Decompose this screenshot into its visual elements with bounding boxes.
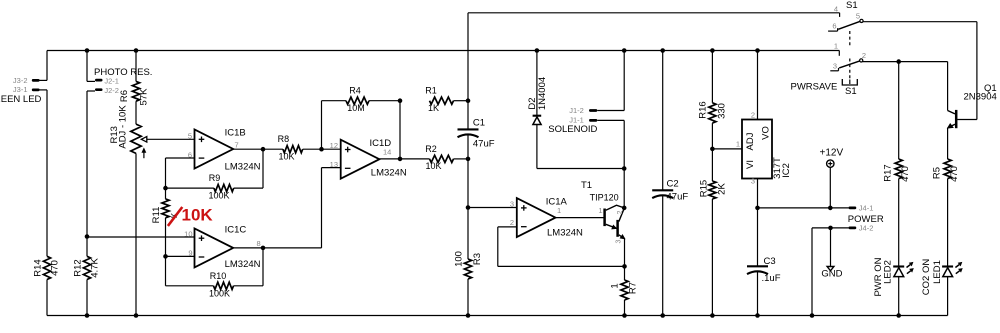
- switch S1 lower blade: [839, 61, 860, 68]
- node IC1C output junction: [261, 246, 266, 251]
- node LED2 bottom rail junction: [896, 313, 901, 318]
- wire Q1 emitter down to R5: [947, 128, 949, 159]
- wire solenoid loop bottom: [537, 168, 624, 170]
- svg-text:8: 8: [257, 239, 261, 248]
- svg-text:1: 1: [557, 206, 561, 215]
- svg-text:57K: 57K: [138, 88, 149, 106]
- svg-text:J3-1: J3-1: [13, 85, 28, 94]
- resistor R4: [346, 97, 369, 104]
- resistor R7: [621, 280, 628, 300]
- node GND stem junction: [828, 226, 833, 231]
- resistor R15: [709, 181, 716, 199]
- svg-text:S1: S1: [845, 86, 857, 97]
- wire R10 left run: [166, 285, 214, 287]
- svg-text:LM324N: LM324N: [371, 167, 407, 178]
- R13 adjust arrow: [142, 148, 146, 158]
- svg-text:10K: 10K: [182, 206, 214, 225]
- wire +12V stem: [829, 167, 831, 208]
- wire J3-1 down to R14: [46, 90, 48, 256]
- node R15 bottom rail junction: [710, 313, 715, 318]
- diode D2: [533, 116, 542, 125]
- node C3 bottom rail junction: [755, 313, 760, 318]
- red strikethrough slash: [168, 207, 182, 226]
- resistor R10: [214, 282, 234, 289]
- wire R17 riser: [898, 62, 900, 159]
- wire C3 to bottom rail: [757, 272, 759, 316]
- wire switch S1 pin1 terminal tick: [838, 51, 840, 56]
- wire J2-2 down to R12/IC1C node: [86, 91, 88, 237]
- wire D2 to bottom of solenoid loop: [536, 125, 538, 169]
- node T1 collector junction: [622, 206, 627, 211]
- svg-text:VO: VO: [760, 126, 771, 140]
- wire R12 top stub: [86, 237, 88, 257]
- +12V supply symbol: [827, 160, 834, 167]
- wire R11 to pin9 node: [165, 218, 167, 257]
- wire rail to R6: [135, 51, 137, 82]
- svg-text:7: 7: [235, 140, 239, 149]
- node R3 bottom rail junction: [466, 313, 471, 318]
- node R13 bottom rail junction: [134, 313, 139, 318]
- svg-text:100K: 100K: [208, 191, 229, 201]
- svg-text:10M: 10M: [347, 103, 365, 113]
- svg-text:2K: 2K: [716, 183, 727, 195]
- connector J4-2: [849, 227, 857, 230]
- svg-text:13: 13: [330, 160, 338, 169]
- wire C1 down through nodes to R3: [467, 135, 469, 259]
- node J4-2 bottom rail junction: [810, 313, 815, 318]
- wire IC1C output run: [233, 247, 321, 249]
- node IC1B output junction: [261, 147, 266, 152]
- svg-text:TIP120: TIP120: [590, 193, 619, 203]
- svg-text:R10: R10: [210, 271, 227, 281]
- wire J4-2 to bottom rail: [811, 228, 813, 316]
- wire Q1 collector riser: [947, 62, 949, 111]
- svg-text:5: 5: [856, 11, 860, 20]
- node IC1D output junction: [398, 157, 403, 162]
- wire J1-1 down to T1 collector: [623, 120, 625, 207]
- switch mechanical link dashed lower: [849, 59, 851, 79]
- connector J1-1: [589, 119, 624, 122]
- wire R12 to bottom rail: [86, 280, 88, 316]
- node IC1A pin3 junction: [466, 205, 471, 210]
- resistor R17: [895, 159, 902, 179]
- wire R8 to IC1D pin 12: [303, 148, 341, 150]
- node IC2 rail junction: [755, 48, 760, 53]
- svg-text:R4: R4: [349, 86, 361, 96]
- LED LED2: [893, 262, 913, 276]
- wire T1 emitter down: [624, 239, 626, 267]
- svg-text:+12V: +12V: [820, 148, 844, 159]
- wire IC1D output run: [379, 158, 429, 160]
- svg-text:5: 5: [188, 131, 192, 140]
- svg-text:C2: C2: [667, 179, 679, 190]
- wire IC1A output to T1 base: [556, 217, 604, 219]
- svg-text:J2-2: J2-2: [104, 86, 119, 95]
- wire R9 right riser: [262, 149, 264, 188]
- resistor R12: [83, 256, 90, 279]
- svg-text:IC1B: IC1B: [225, 128, 246, 139]
- switch S1 upper blade: [838, 21, 860, 29]
- ground symbol: [827, 267, 834, 271]
- wire switch S1 pin4 terminal tick: [839, 13, 841, 17]
- svg-text:1: 1: [609, 283, 620, 288]
- svg-text:10K: 10K: [425, 161, 441, 171]
- wire S1 pin2 to Q1 collector run: [863, 61, 948, 63]
- node R7 bottom rail junction: [622, 313, 627, 318]
- svg-text:R14: R14: [32, 259, 43, 276]
- node R2/C1 junction: [466, 157, 471, 162]
- svg-text:R6: R6: [119, 90, 130, 102]
- momentary bracket: [842, 79, 857, 85]
- wire node to IC1C pin 10: [87, 236, 195, 238]
- node R1/C1 junction: [466, 98, 471, 103]
- wire C2 to bottom rail: [662, 196, 664, 316]
- svg-text:3: 3: [615, 239, 622, 243]
- resistor R11: [162, 199, 169, 218]
- wire R10 right riser: [262, 248, 264, 286]
- svg-text:1: 1: [598, 206, 602, 215]
- switch mechanical link dashed upper: [849, 31, 851, 46]
- svg-text:R17: R17: [882, 164, 893, 181]
- wire GND stem: [830, 228, 832, 267]
- node solenoid loop junction: [622, 166, 627, 171]
- wire R15 to bottom rail: [711, 199, 713, 316]
- wire main +12V top rail: [47, 50, 839, 52]
- svg-text:470: 470: [50, 260, 61, 276]
- wire power run to J4-1: [758, 207, 849, 209]
- node power node junction: [755, 206, 760, 211]
- svg-text:IC2: IC2: [781, 163, 792, 178]
- wire IC2 pin 1: [712, 148, 742, 150]
- potentiometer R13: [131, 124, 141, 153]
- svg-text:R9: R9: [209, 173, 221, 183]
- wire R13 to bottom rail: [135, 153, 137, 315]
- svg-text:2N3904: 2N3904: [964, 92, 997, 103]
- switch S1 lower pin 3 stub: [830, 68, 838, 71]
- connector J1-2: [589, 109, 624, 112]
- wire R9 left run: [166, 187, 214, 189]
- svg-text:12: 12: [330, 141, 338, 150]
- svg-text:GND: GND: [821, 269, 842, 280]
- R13 wiper arrow: [141, 137, 147, 143]
- svg-text:R8: R8: [278, 134, 290, 144]
- node R4 branch junction: [319, 147, 324, 152]
- wire R5 to LED1: [947, 179, 949, 267]
- transistor Q1 2N3904: [948, 110, 977, 128]
- svg-text:T1: T1: [581, 180, 592, 191]
- wire LED2 to bottom rail: [898, 277, 900, 316]
- node IC1C pin 9 junction: [163, 254, 168, 259]
- svg-text:1: 1: [736, 139, 740, 148]
- wire R10 right run: [234, 285, 264, 287]
- svg-text:GREEN LED: GREEN LED: [0, 94, 42, 105]
- node R6 rail junction: [134, 48, 139, 53]
- switch S1 upper pin 5 terminal: [860, 19, 863, 22]
- wire rail to R16: [711, 51, 713, 103]
- svg-text:4.7K: 4.7K: [89, 258, 100, 278]
- svg-text:10K: 10K: [278, 152, 294, 162]
- svg-text:ADJ - 10K: ADJ - 10K: [117, 105, 128, 149]
- wire R16 to IC2 pin1 node: [711, 123, 713, 181]
- capacitor C3: [747, 266, 768, 274]
- transistor T1 TIP120 darlington: [605, 205, 625, 239]
- wire R4 left run: [322, 100, 347, 102]
- svg-text:100: 100: [453, 251, 464, 267]
- svg-text:J4-2: J4-2: [859, 223, 874, 232]
- switch S1 lower pin 2 terminal: [860, 59, 863, 62]
- resistor R16: [709, 103, 716, 123]
- capacitor C2: [652, 190, 673, 198]
- svg-text:470: 470: [949, 166, 960, 182]
- resistor R3: [464, 259, 471, 279]
- connector J3-1: [32, 89, 47, 92]
- svg-text:LED1: LED1: [932, 260, 943, 284]
- wire J4-2 run: [812, 227, 849, 229]
- svg-text:R3: R3: [472, 253, 483, 265]
- svg-text:J3-2: J3-2: [13, 76, 28, 85]
- svg-text:2: 2: [862, 51, 866, 60]
- svg-text:2: 2: [751, 111, 755, 120]
- node J2-1 rail junction: [85, 48, 90, 53]
- wire upper rail from C1 node to S1 pin 4: [468, 12, 840, 14]
- wire IC1B output to R8: [233, 148, 283, 150]
- wire Q1 base riser: [976, 22, 978, 120]
- regulator IC2 body: [742, 120, 772, 179]
- wire bottom ground rail: [47, 315, 948, 317]
- node R4/R1 junction: [398, 98, 403, 103]
- svg-text:470: 470: [900, 166, 911, 182]
- svg-text:C3: C3: [764, 256, 776, 267]
- svg-text:R11: R11: [151, 207, 162, 224]
- svg-text:SOLENOID: SOLENOID: [548, 124, 597, 135]
- svg-text:R1: R1: [425, 86, 437, 96]
- resistor R9: [214, 185, 234, 192]
- svg-text:R12: R12: [72, 259, 83, 276]
- svg-text:LM324N: LM324N: [225, 162, 261, 173]
- svg-text:3: 3: [833, 62, 837, 71]
- LED LED1: [942, 262, 962, 276]
- svg-text:J1-2: J1-2: [569, 106, 584, 115]
- wire R17 to LED2: [898, 179, 900, 267]
- svg-text:LM324N: LM324N: [225, 259, 261, 270]
- node R16 rail junction: [710, 48, 715, 53]
- node J1-2 rail junction: [622, 48, 627, 53]
- svg-text:6: 6: [832, 22, 836, 31]
- wire rail down to J1-2: [623, 51, 625, 111]
- svg-text:.1uF: .1uF: [762, 273, 781, 284]
- node IC2 pin1 junction: [710, 147, 715, 152]
- svg-text:47uF: 47uF: [667, 192, 689, 203]
- svg-text:2: 2: [617, 210, 624, 214]
- svg-text:330: 330: [716, 103, 727, 119]
- op-amp IC1D: [341, 140, 380, 179]
- connector J4-1: [849, 207, 857, 210]
- resistor R6: [132, 81, 139, 101]
- wire R4 branch riser: [321, 101, 323, 150]
- node R17 junction on S1 pin2 run: [896, 59, 901, 64]
- wire LED1 to bottom rail: [947, 277, 949, 316]
- svg-text:R15: R15: [698, 180, 709, 197]
- wire R13 wiper to IC1B pin 5: [147, 138, 195, 140]
- svg-text:R16: R16: [697, 101, 708, 118]
- svg-text:9: 9: [188, 248, 192, 257]
- wire R1 right run: [454, 100, 469, 102]
- wire R7 to bottom rail: [624, 300, 626, 316]
- node +12V power junction: [828, 206, 833, 211]
- svg-text:PWRSAVE: PWRSAVE: [791, 82, 838, 93]
- wire rail to D2: [536, 51, 538, 116]
- svg-text:1: 1: [834, 41, 838, 50]
- svg-text:14: 14: [383, 147, 391, 156]
- wire pin3 node to IC1A: [468, 207, 517, 209]
- svg-text:LED2: LED2: [883, 260, 894, 284]
- wire IC2 pin 2 riser: [757, 51, 759, 120]
- wire pin9 node down to R10: [165, 256, 167, 285]
- svg-text:R7: R7: [627, 282, 638, 294]
- op-amp IC1A: [517, 198, 556, 237]
- svg-text:3: 3: [510, 200, 514, 209]
- wire R9 right run: [234, 187, 263, 189]
- wire R14 to bottom rail: [46, 280, 48, 316]
- wire C3 riser: [757, 208, 759, 266]
- svg-text:PHOTO RES.: PHOTO RES.: [94, 67, 152, 78]
- svg-text:CO2 ON: CO2 ON: [921, 259, 932, 296]
- svg-text:2: 2: [510, 218, 514, 227]
- wire S1 pin5 to Q1 base run: [863, 21, 977, 23]
- wire IC1A pin2 feedback: [498, 227, 625, 267]
- node R12 top junction: [85, 234, 90, 239]
- switch S1 upper pin 6 stub: [828, 28, 838, 31]
- svg-text:C1: C1: [473, 118, 485, 129]
- resistor R5: [944, 159, 951, 179]
- wire IC1C output riser to IC1D pin13: [322, 168, 341, 248]
- wire node to R7: [624, 266, 626, 280]
- connector J2-2: [87, 88, 103, 91]
- svg-text:3: 3: [751, 177, 755, 186]
- svg-text:4: 4: [834, 4, 838, 13]
- resistor R2: [430, 155, 454, 162]
- wire R4 right run: [369, 100, 400, 102]
- wire IC2 pin 3 down: [757, 179, 759, 208]
- node R12 bottom rail junction: [85, 313, 90, 318]
- wire R6 to R13: [135, 101, 137, 124]
- connector J2-1: [87, 51, 103, 82]
- svg-text:1K: 1K: [428, 103, 439, 113]
- node R9 left junction: [163, 186, 168, 191]
- node D2 rail junction: [535, 48, 540, 53]
- svg-text:1N4004: 1N4004: [537, 77, 548, 110]
- node R7 top junction: [622, 264, 627, 269]
- wire rail to C2: [662, 51, 664, 191]
- svg-text:100K: 100K: [209, 288, 230, 298]
- svg-text:VI: VI: [745, 160, 756, 169]
- resistor R1: [430, 97, 454, 104]
- wire R9 node to R11: [165, 188, 167, 199]
- node C2 rail junction: [660, 48, 665, 53]
- svg-text:S1: S1: [846, 0, 858, 11]
- wire pin9 node to IC1C: [166, 255, 195, 257]
- capacitor C1: [458, 129, 479, 137]
- momentary bracket dash: [849, 80, 851, 85]
- op-amp IC1B: [195, 130, 234, 169]
- wire upper rail riser at C1 node: [467, 13, 469, 130]
- resistor R14: [43, 256, 50, 279]
- resistor R8: [283, 146, 303, 153]
- svg-text:ADJ: ADJ: [745, 132, 756, 150]
- op-amp IC1C: [195, 228, 234, 267]
- node C2 bottom rail junction: [660, 313, 665, 318]
- connector J3-2: [32, 51, 47, 82]
- wire output to R1 riser: [399, 101, 401, 159]
- wire IC1B pin6 loop: [166, 158, 195, 188]
- svg-text:R2: R2: [425, 144, 437, 154]
- wire R3 to bottom rail: [467, 279, 469, 316]
- svg-text:J4-1: J4-1: [859, 203, 874, 212]
- svg-text:R5: R5: [931, 167, 942, 179]
- svg-text:47uF: 47uF: [473, 139, 495, 150]
- svg-text:IC1C: IC1C: [225, 225, 247, 236]
- wire R2 right run: [454, 158, 469, 160]
- svg-text:10: 10: [184, 229, 192, 238]
- svg-text:LM324N: LM324N: [547, 228, 583, 239]
